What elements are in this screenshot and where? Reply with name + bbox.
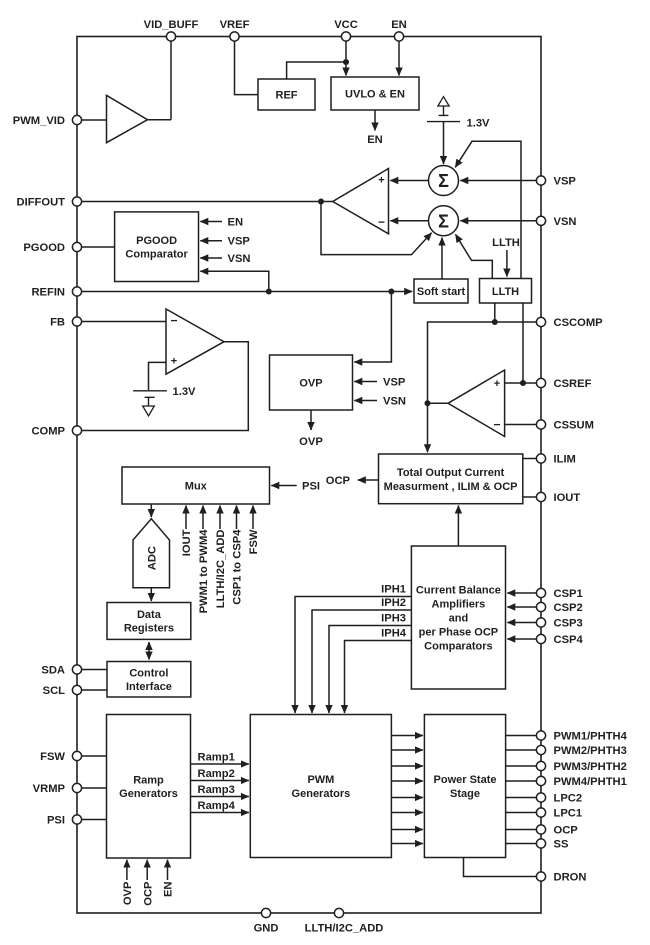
svg-text:PSI: PSI — [302, 481, 320, 493]
wire ADC to data registers — [150, 588, 152, 601]
svg-text:−: − — [170, 314, 177, 328]
wire PWM to power state y=829.5 — [391, 829, 423, 831]
wire current balance to total block — [457, 506, 459, 547]
wire PWM to power state y=843.5 — [391, 843, 423, 845]
wire COMP from FB amp output — [82, 342, 249, 431]
wire SCL — [82, 689, 108, 691]
wire summer S1 to error amp — [390, 180, 428, 182]
svg-text:and: and — [449, 613, 469, 625]
svg-text:FB: FB — [50, 317, 65, 329]
svg-text:Stage: Stage — [450, 788, 480, 800]
junction REFIN-PGOOD — [266, 289, 272, 295]
svg-text:LPC1: LPC1 — [554, 808, 583, 820]
svg-text:SS: SS — [554, 839, 569, 851]
svg-text:Comparators: Comparators — [424, 641, 492, 653]
svg-text:DRON: DRON — [554, 872, 587, 884]
pin FB — [72, 317, 81, 326]
pin VRMP — [72, 783, 81, 792]
svg-text:Current Balance: Current Balance — [416, 585, 501, 597]
svg-text:COMP: COMP — [31, 426, 65, 438]
wire OVP output — [310, 410, 312, 430]
svg-text:Power State: Power State — [434, 774, 497, 786]
pin CSP1 — [536, 588, 545, 597]
block REF — [258, 79, 315, 110]
current sense amp — [448, 370, 505, 437]
wire Ramp2 — [191, 780, 249, 782]
svg-text:LLTH: LLTH — [492, 237, 520, 249]
svg-text:−: − — [493, 418, 500, 432]
block ramp generators — [107, 715, 191, 859]
pin REFIN — [72, 287, 81, 296]
wire PWM to power state y=797.5 — [391, 797, 423, 799]
pin PWM1/PHTH4 — [536, 731, 545, 740]
pin PGOOD — [72, 242, 81, 251]
svg-text:OVP: OVP — [299, 378, 322, 390]
svg-text:PGOOD: PGOOD — [23, 242, 65, 254]
block PGOOD comparator — [115, 212, 199, 282]
svg-text:PSI: PSI — [47, 815, 65, 827]
wire Mux input FSW — [252, 506, 254, 530]
wire UVLO EN output — [374, 110, 376, 131]
svg-text:Soft start: Soft start — [417, 286, 466, 298]
wire CSP4 into current balance — [507, 638, 536, 640]
wire PGOOD to comparator — [82, 246, 115, 248]
wire DIFFOUT line — [82, 201, 334, 203]
block OVP — [270, 355, 353, 410]
wire power state output stub y=781 — [506, 780, 537, 782]
svg-text:OCP: OCP — [142, 881, 154, 906]
block soft start — [414, 279, 468, 303]
wire power state output stub y=750 — [506, 749, 537, 751]
pin PWM_VID — [72, 115, 81, 124]
wire Mux input PWM1 to PWM4 — [202, 506, 204, 530]
svg-text:IOUT: IOUT — [181, 529, 193, 556]
svg-text:EN: EN — [391, 19, 407, 31]
wire PSI — [82, 819, 107, 821]
wire VSN into PGOOD comparator — [200, 257, 222, 259]
pin CSCOMP — [536, 317, 545, 326]
svg-text:Data: Data — [137, 609, 162, 621]
wire CSP3 into current balance — [507, 622, 536, 624]
svg-text:VSP: VSP — [383, 377, 406, 389]
wire IPH4 — [345, 641, 412, 714]
pin CSP2 — [536, 602, 545, 611]
wire VREF to REF — [235, 41, 259, 95]
wire SDA — [82, 669, 108, 671]
wire power state output stub y=829.5 — [506, 829, 537, 831]
svg-text:LLTH/I2C_ADD: LLTH/I2C_ADD — [305, 923, 384, 935]
pin VSN — [536, 216, 545, 225]
wire DRON — [464, 858, 537, 877]
svg-text:ILIM: ILIM — [554, 454, 576, 466]
svg-text:Mux: Mux — [185, 481, 208, 493]
svg-text:IPH3: IPH3 — [381, 613, 406, 625]
svg-text:LLTH: LLTH — [492, 286, 519, 298]
summer S1 — [429, 166, 459, 196]
wire REFIN to soft start — [82, 291, 413, 293]
svg-text:PGOOD: PGOOD — [136, 235, 177, 247]
supply 1.3V (FB amp) — [133, 391, 167, 406]
junction DIFFOUT feedback — [318, 199, 324, 205]
wire Ramp3 — [191, 796, 249, 798]
svg-text:LPC2: LPC2 — [554, 793, 583, 805]
block control interface — [107, 662, 191, 698]
svg-text:PWM1 to PWM4: PWM1 to PWM4 — [198, 529, 210, 614]
wire CSP2 into current balance — [507, 606, 536, 608]
wire VSN to summer S2 — [460, 220, 536, 222]
pin DIFFOUT — [72, 197, 81, 206]
wire summer S2 to error amp — [390, 220, 428, 222]
pin COMP — [72, 426, 81, 435]
wire power state output stub y=843.5 — [506, 843, 537, 845]
wire PWM to power state y=766 — [391, 765, 423, 767]
svg-text:Ramp: Ramp — [133, 775, 164, 787]
block ADC — [133, 519, 170, 588]
wire REFIN to PGOOD comparator — [200, 271, 268, 291]
junction CSCOMP-LLTH — [492, 319, 498, 325]
svg-text:PWM: PWM — [307, 774, 334, 786]
svg-text:Σ: Σ — [438, 171, 449, 191]
pin PWM4/PHTH1 — [536, 776, 545, 785]
wire power state output stub y=735.5 — [506, 735, 537, 737]
wire VCC to UVLO — [345, 41, 347, 76]
wire IPH1 — [295, 597, 411, 714]
svg-text:OVP: OVP — [122, 881, 134, 905]
svg-text:CSP2: CSP2 — [554, 602, 583, 614]
pin PWM2/PHTH3 — [536, 745, 545, 754]
svg-text:SDA: SDA — [41, 665, 65, 677]
summer S2 — [429, 206, 459, 236]
svg-text:PWM2/PHTH3: PWM2/PHTH3 — [554, 745, 627, 757]
wire LLTH label arrow — [506, 250, 508, 277]
wire ramp gen input OVP — [126, 860, 128, 880]
svg-text:VREF: VREF — [220, 19, 250, 31]
svg-text:Ramp3: Ramp3 — [198, 784, 235, 796]
svg-text:VRMP: VRMP — [33, 783, 66, 795]
wire Mux input IOUT — [185, 506, 187, 530]
svg-text:VSN: VSN — [554, 216, 577, 228]
pin LLTH/I2C_ADD — [334, 908, 343, 917]
wire Ramp4 — [191, 812, 249, 814]
wire FSW — [82, 755, 107, 757]
wire soft start to summer S2 — [441, 238, 443, 279]
wire 1.3V to summer S1 — [443, 122, 445, 164]
pin VID_BUFF — [166, 32, 175, 41]
pin SS — [536, 839, 545, 848]
wire Mux input CSP1 to CSP4 — [236, 506, 238, 530]
wire Ramp1 — [191, 763, 249, 765]
svg-text:GND: GND — [254, 923, 279, 935]
svg-text:IPH2: IPH2 — [381, 597, 406, 609]
FB amp — [166, 309, 224, 374]
svg-text:Comparator: Comparator — [125, 248, 188, 260]
wire OCP output of total block — [358, 479, 379, 481]
pin PSI — [72, 815, 81, 824]
wire VSP into OVP — [354, 381, 377, 383]
pin ILIM — [536, 454, 545, 463]
svg-text:Registers: Registers — [124, 623, 174, 635]
block UVLO and EN — [331, 77, 419, 110]
svg-text:VSP: VSP — [554, 176, 577, 188]
wire LLTH box to CSREF line — [522, 303, 524, 383]
wire CSSUM to CS amp — [505, 424, 537, 426]
chip outline — [77, 37, 541, 914]
pin DRON — [536, 872, 545, 881]
block data registers — [107, 603, 191, 640]
pin IOUT — [536, 492, 545, 501]
svg-text:Ramp4: Ramp4 — [198, 800, 236, 812]
block PWM generators — [250, 715, 391, 858]
wire CS amp output — [428, 402, 449, 404]
wire REFIN branch to OVP — [354, 292, 391, 363]
pin CSP3 — [536, 618, 545, 627]
wire ramp gen input EN — [167, 860, 169, 880]
svg-text:Amplifiers: Amplifiers — [432, 599, 486, 611]
pin CSSUM — [536, 420, 545, 429]
svg-text:+: + — [171, 356, 177, 368]
pin SDA — [72, 665, 81, 674]
wire PWM to power state y=750 — [391, 749, 423, 751]
svg-text:IPH4: IPH4 — [381, 628, 407, 640]
svg-text:VSN: VSN — [228, 253, 251, 265]
svg-text:1.3V: 1.3V — [467, 118, 491, 130]
pin GND — [261, 908, 270, 917]
wire ramp gen input OCP — [146, 860, 148, 880]
wire DIFFOUT feedback to summer S2 — [321, 202, 432, 255]
wire FB input — [82, 321, 167, 323]
svg-text:CSP1 to CSP4: CSP1 to CSP4 — [232, 529, 244, 605]
svg-text:ADC: ADC — [146, 546, 158, 570]
svg-text:VSP: VSP — [228, 236, 251, 248]
junction CSREF-LLTH — [520, 380, 526, 386]
wire data registers to control interface — [148, 642, 150, 660]
ground symbol — [143, 406, 155, 416]
supply 1.3V (top) — [427, 97, 460, 122]
wire VCC junction to REF top — [287, 62, 346, 79]
wire EN to UVLO — [398, 41, 400, 76]
wire PWM to power state y=735.5 — [391, 735, 423, 737]
junction REFIN-OVP — [388, 289, 394, 295]
wire buffer output to VID_BUFF — [148, 119, 172, 121]
error amp (remote sense) — [333, 169, 389, 234]
svg-text:Interface: Interface — [126, 681, 172, 693]
wire EN into PGOOD comparator — [200, 221, 222, 223]
wire PWM_VID to buffer — [82, 119, 107, 121]
pin SCL — [72, 685, 81, 694]
pin CSP4 — [536, 634, 545, 643]
svg-text:REFIN: REFIN — [31, 287, 65, 299]
svg-text:IPH1: IPH1 — [381, 584, 406, 596]
wire VSP to summer S1 — [460, 180, 536, 182]
wire LLTH box corner to summer S2 — [456, 234, 493, 278]
wire VID_BUFF vertical — [170, 41, 172, 120]
svg-text:UVLO & EN: UVLO & EN — [345, 89, 405, 101]
svg-text:CSP4: CSP4 — [554, 634, 584, 646]
svg-text:Ramp2: Ramp2 — [198, 768, 235, 780]
svg-text:FSW: FSW — [40, 751, 65, 763]
svg-text:DIFFOUT: DIFFOUT — [17, 197, 66, 209]
svg-text:OCP: OCP — [554, 825, 579, 837]
svg-text:PWM4/PHTH1: PWM4/PHTH1 — [554, 776, 627, 788]
svg-text:CSSUM: CSSUM — [554, 420, 594, 432]
pin OCP — [536, 825, 545, 834]
wire LLTH box to CSCOMP line — [494, 303, 496, 322]
junction CS amp output — [425, 400, 431, 406]
svg-text:VCC: VCC — [334, 19, 358, 31]
wire VSP into PGOOD comparator — [200, 240, 222, 242]
svg-text:VID_BUFF: VID_BUFF — [144, 19, 199, 31]
pin PWM3/PHTH2 — [536, 761, 545, 770]
wire VSN into OVP — [354, 400, 377, 402]
svg-text:OCP: OCP — [326, 475, 351, 487]
svg-text:FSW: FSW — [248, 529, 260, 554]
wire FB amp plus input — [149, 362, 167, 390]
pin LPC2 — [536, 793, 545, 802]
svg-text:per Phase OCP: per Phase OCP — [419, 627, 498, 639]
svg-text:Σ: Σ — [438, 211, 449, 231]
svg-text:−: − — [378, 215, 385, 229]
buffer amp PWM_VID — [107, 95, 148, 142]
wire VRMP — [82, 787, 107, 789]
svg-text:Measurment , ILIM & OCP: Measurment , ILIM & OCP — [384, 481, 518, 493]
pin EN — [394, 32, 403, 41]
block power state stage — [424, 715, 505, 858]
pin FSW — [72, 751, 81, 760]
wire Mux to ADC — [150, 504, 152, 517]
svg-text:CSREF: CSREF — [554, 378, 592, 390]
wire LLTH top loop to summer S1 — [455, 141, 521, 278]
wire IPH2 — [312, 610, 411, 713]
pin CSREF — [536, 378, 545, 387]
wire CSREF to CS amp — [505, 382, 537, 384]
pin VSP — [536, 176, 545, 185]
svg-text:LLTH/I2C_ADD: LLTH/I2C_ADD — [215, 530, 227, 609]
pin VCC — [341, 32, 350, 41]
svg-text:REF: REF — [276, 90, 298, 102]
block Mux — [122, 467, 270, 504]
svg-text:CSCOMP: CSCOMP — [554, 317, 604, 329]
wire power state output stub y=766 — [506, 765, 537, 767]
svg-text:VSN: VSN — [383, 396, 406, 408]
wire IPH3 — [329, 626, 411, 714]
svg-text:CSP3: CSP3 — [554, 618, 583, 630]
svg-text:EN: EN — [228, 217, 244, 229]
svg-text:PWM3/PHTH2: PWM3/PHTH2 — [554, 761, 627, 773]
svg-text:Generators: Generators — [119, 788, 178, 800]
pin LPC1 — [536, 808, 545, 817]
block LLTH — [480, 279, 532, 304]
wire power state output stub y=812.5 — [506, 812, 537, 814]
svg-text:EN: EN — [367, 134, 383, 146]
wire CSP1 into current balance — [507, 592, 536, 594]
wire Mux input LLTH/I2C_ADD — [219, 506, 221, 530]
block current balance — [411, 546, 505, 689]
svg-text:Total Output Current: Total Output Current — [397, 467, 505, 479]
pin VREF — [230, 32, 239, 41]
svg-text:IOUT: IOUT — [554, 492, 581, 504]
svg-text:PWM1/PHTH4: PWM1/PHTH4 — [554, 731, 628, 743]
svg-text:1.3V: 1.3V — [173, 386, 197, 398]
svg-text:Ramp1: Ramp1 — [198, 752, 235, 764]
wire power state output stub y=797.5 — [506, 797, 537, 799]
wire PSI into Mux — [271, 485, 296, 487]
wire IOUT stub — [523, 496, 537, 498]
junction VCC-REF — [343, 59, 349, 65]
wire ILIM stub — [523, 458, 537, 460]
wire PWM to power state y=812.5 — [391, 812, 423, 814]
svg-text:SCL: SCL — [43, 685, 66, 697]
svg-text:OVP: OVP — [299, 436, 323, 448]
svg-text:Control: Control — [129, 668, 168, 680]
svg-text:PWM_VID: PWM_VID — [13, 115, 65, 127]
svg-text:CSP1: CSP1 — [554, 588, 583, 600]
wire PWM to power state y=781 — [391, 780, 423, 782]
svg-text:+: + — [378, 175, 384, 187]
wire CSCOMP to total current block — [428, 322, 537, 452]
block total output current — [379, 454, 523, 504]
svg-text:+: + — [494, 378, 500, 390]
svg-text:Generators: Generators — [292, 788, 351, 800]
svg-text:EN: EN — [163, 882, 175, 898]
